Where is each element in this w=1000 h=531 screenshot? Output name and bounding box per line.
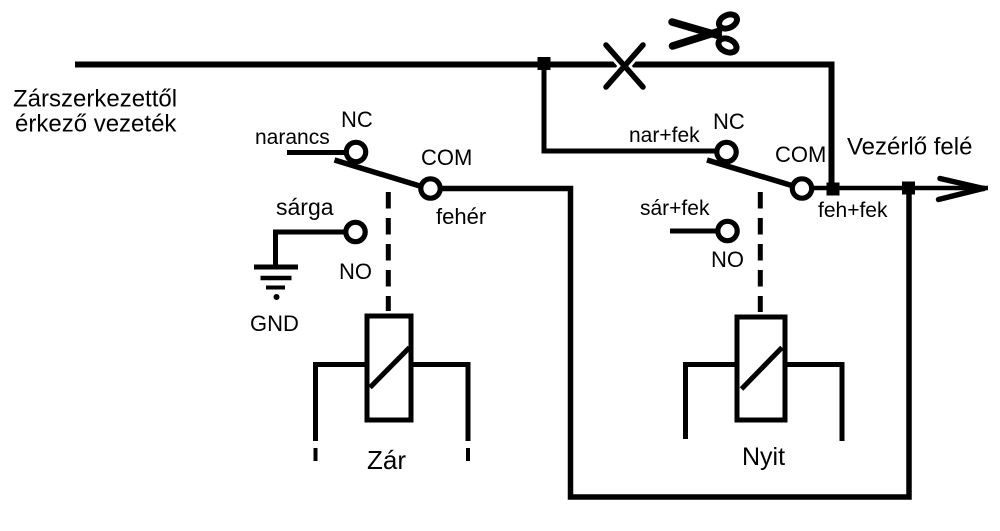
wire: relay K2 left terminal xyxy=(686,365,738,440)
contact COM terminal of switch 1 xyxy=(421,179,440,198)
svg-text:Vezérlő felé: Vezérlő felé xyxy=(847,134,972,161)
svg-text:feh+fek: feh+fek xyxy=(818,199,888,222)
svg-text:narancs: narancs xyxy=(255,126,330,149)
relay coil K2 (Nyit) xyxy=(737,317,785,420)
svg-text:Nyit: Nyit xyxy=(742,443,785,471)
svg-text:NC: NC xyxy=(341,107,373,132)
svg-text:Zár: Zár xyxy=(367,445,406,475)
wire: relay K1 right terminal xyxy=(411,365,468,442)
svg-text:fehér: fehér xyxy=(436,204,486,229)
svg-text:nar+fek: nar+fek xyxy=(629,124,700,147)
svg-text:NC: NC xyxy=(713,109,745,134)
node: junction dot on top wire xyxy=(538,57,551,70)
contact NC terminal of switch 1 xyxy=(346,142,365,161)
svg-text:érkező vezeték: érkező vezeték xyxy=(15,111,177,138)
relay coil K1 (Zar) xyxy=(367,316,411,420)
wire: from top junction down then right to NC of second switch xyxy=(544,65,716,152)
svg-text:COM: COM xyxy=(421,145,472,170)
X cut mark on top wire xyxy=(606,45,643,87)
wire: narancs stub into NC1 xyxy=(287,150,346,155)
contact NO terminal of switch 1 xyxy=(346,222,365,241)
switch arm (switch 2) xyxy=(707,160,800,188)
node: junction dot at loop connection xyxy=(902,182,915,195)
arrow head toward controller xyxy=(939,179,984,200)
node: junction dot at COM2 output xyxy=(827,183,840,196)
wire: sar+fek stub into NO2 xyxy=(670,229,717,234)
svg-text:NO: NO xyxy=(339,259,372,284)
wire: relay K2 right terminal xyxy=(785,365,842,442)
dashed actuator link of switch 1 xyxy=(386,192,391,311)
wire: main incoming line from lock mechanism (top horizontal) with corner down at right xyxy=(75,65,832,190)
contact COM terminal of switch 2 xyxy=(792,179,811,198)
switch arm (switch 1) xyxy=(335,160,429,189)
svg-text:Zárszerkezettől: Zárszerkezettől xyxy=(13,86,177,113)
dashed actuator link of switch 2 xyxy=(758,192,763,312)
svg-text:COM: COM xyxy=(775,142,826,167)
svg-text:sárga: sárga xyxy=(276,194,334,220)
svg-text:NO: NO xyxy=(711,247,744,272)
svg-text:sár+fek: sár+fek xyxy=(640,197,710,220)
wire: relay K1 left terminal xyxy=(316,365,368,442)
contact NO terminal of switch 2 xyxy=(718,221,737,240)
wire: COM1 to bottom loop joining output junction xyxy=(441,188,909,497)
scissors icon xyxy=(672,12,739,56)
svg-text:GND: GND xyxy=(250,311,299,336)
ground symbol xyxy=(254,267,298,300)
wire: sarga stub from ground to NO1 xyxy=(276,232,346,265)
contact NC terminal of switch 2 xyxy=(717,142,736,161)
wire: COM2 output line to arrow xyxy=(812,186,988,191)
